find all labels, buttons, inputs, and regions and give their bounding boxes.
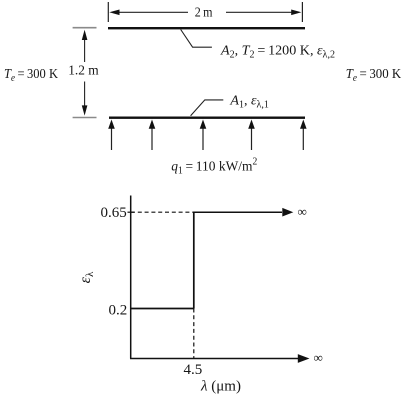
dimension arrowhead right (291, 10, 301, 16)
dimension extension tick right (2 m) (301, 2, 303, 22)
dimension line 2 m right segment (226, 11, 292, 13)
dashed vertical at 4.5 (193, 309, 195, 359)
tick at 0.65 (128, 211, 135, 213)
svg-text:4.5: 4.5 (184, 362, 203, 378)
svg-text:q1 = 110 kW/m2: q1 = 110 kW/m2 (171, 156, 257, 176)
svg-text:λ (μm): λ (μm) (200, 379, 241, 395)
0.65 arrowhead (282, 208, 293, 217)
leader line A1 (191, 100, 224, 116)
plate A2 (top plate) (108, 27, 305, 29)
plate A1 (bottom plate) (109, 117, 305, 119)
dimension line 2 m left segment (118, 11, 188, 13)
dimension arrowhead up (82, 30, 88, 40)
dimension extension tick left (2 m) (107, 2, 109, 22)
dimension arrowhead left (109, 10, 119, 16)
step vertical line at 4.5 (193, 212, 195, 309)
svg-text:A1, ελ,1: A1, ελ,1 (229, 94, 269, 111)
x-axis arrowhead (298, 354, 310, 363)
dimension line 1.2 m lower segment (84, 82, 86, 107)
svg-text:Te = 300 K: Te = 300 K (4, 67, 58, 84)
svg-text:ελ: ελ (77, 271, 96, 283)
dimension extension tick bottom (1.2 m, gray) (73, 117, 97, 119)
svg-text:2 m: 2 m (195, 6, 213, 21)
svg-text:0.2: 0.2 (109, 302, 128, 318)
svg-text:Te = 300 K: Te = 300 K (346, 67, 402, 84)
leader line A2 (181, 30, 212, 48)
dimension line 1.2 m upper segment (84, 38, 86, 62)
dimension arrowhead down (82, 105, 88, 115)
dashed line 0.65 level (131, 211, 194, 213)
svg-text:1.2 m: 1.2 m (68, 64, 99, 79)
flux arrow 5 (302, 128, 304, 150)
svg-text:∞: ∞ (314, 350, 323, 365)
dimension extension tick top (1.2 m, gray) (73, 27, 97, 29)
0.65 level arrow line (194, 211, 282, 213)
graph x-axis (130, 358, 298, 360)
flux arrow 4 (251, 128, 253, 150)
graph y-axis (130, 196, 132, 359)
flux arrow 2 (151, 128, 153, 150)
svg-text:0.65: 0.65 (101, 205, 127, 221)
flux arrow 1 (111, 128, 113, 150)
flux arrow 3 (202, 128, 204, 150)
svg-text:∞: ∞ (298, 204, 307, 219)
0.2 level line (131, 308, 194, 310)
svg-text:A2, T2 = 1200 K, ελ,2: A2, T2 = 1200 K, ελ,2 (220, 44, 335, 61)
